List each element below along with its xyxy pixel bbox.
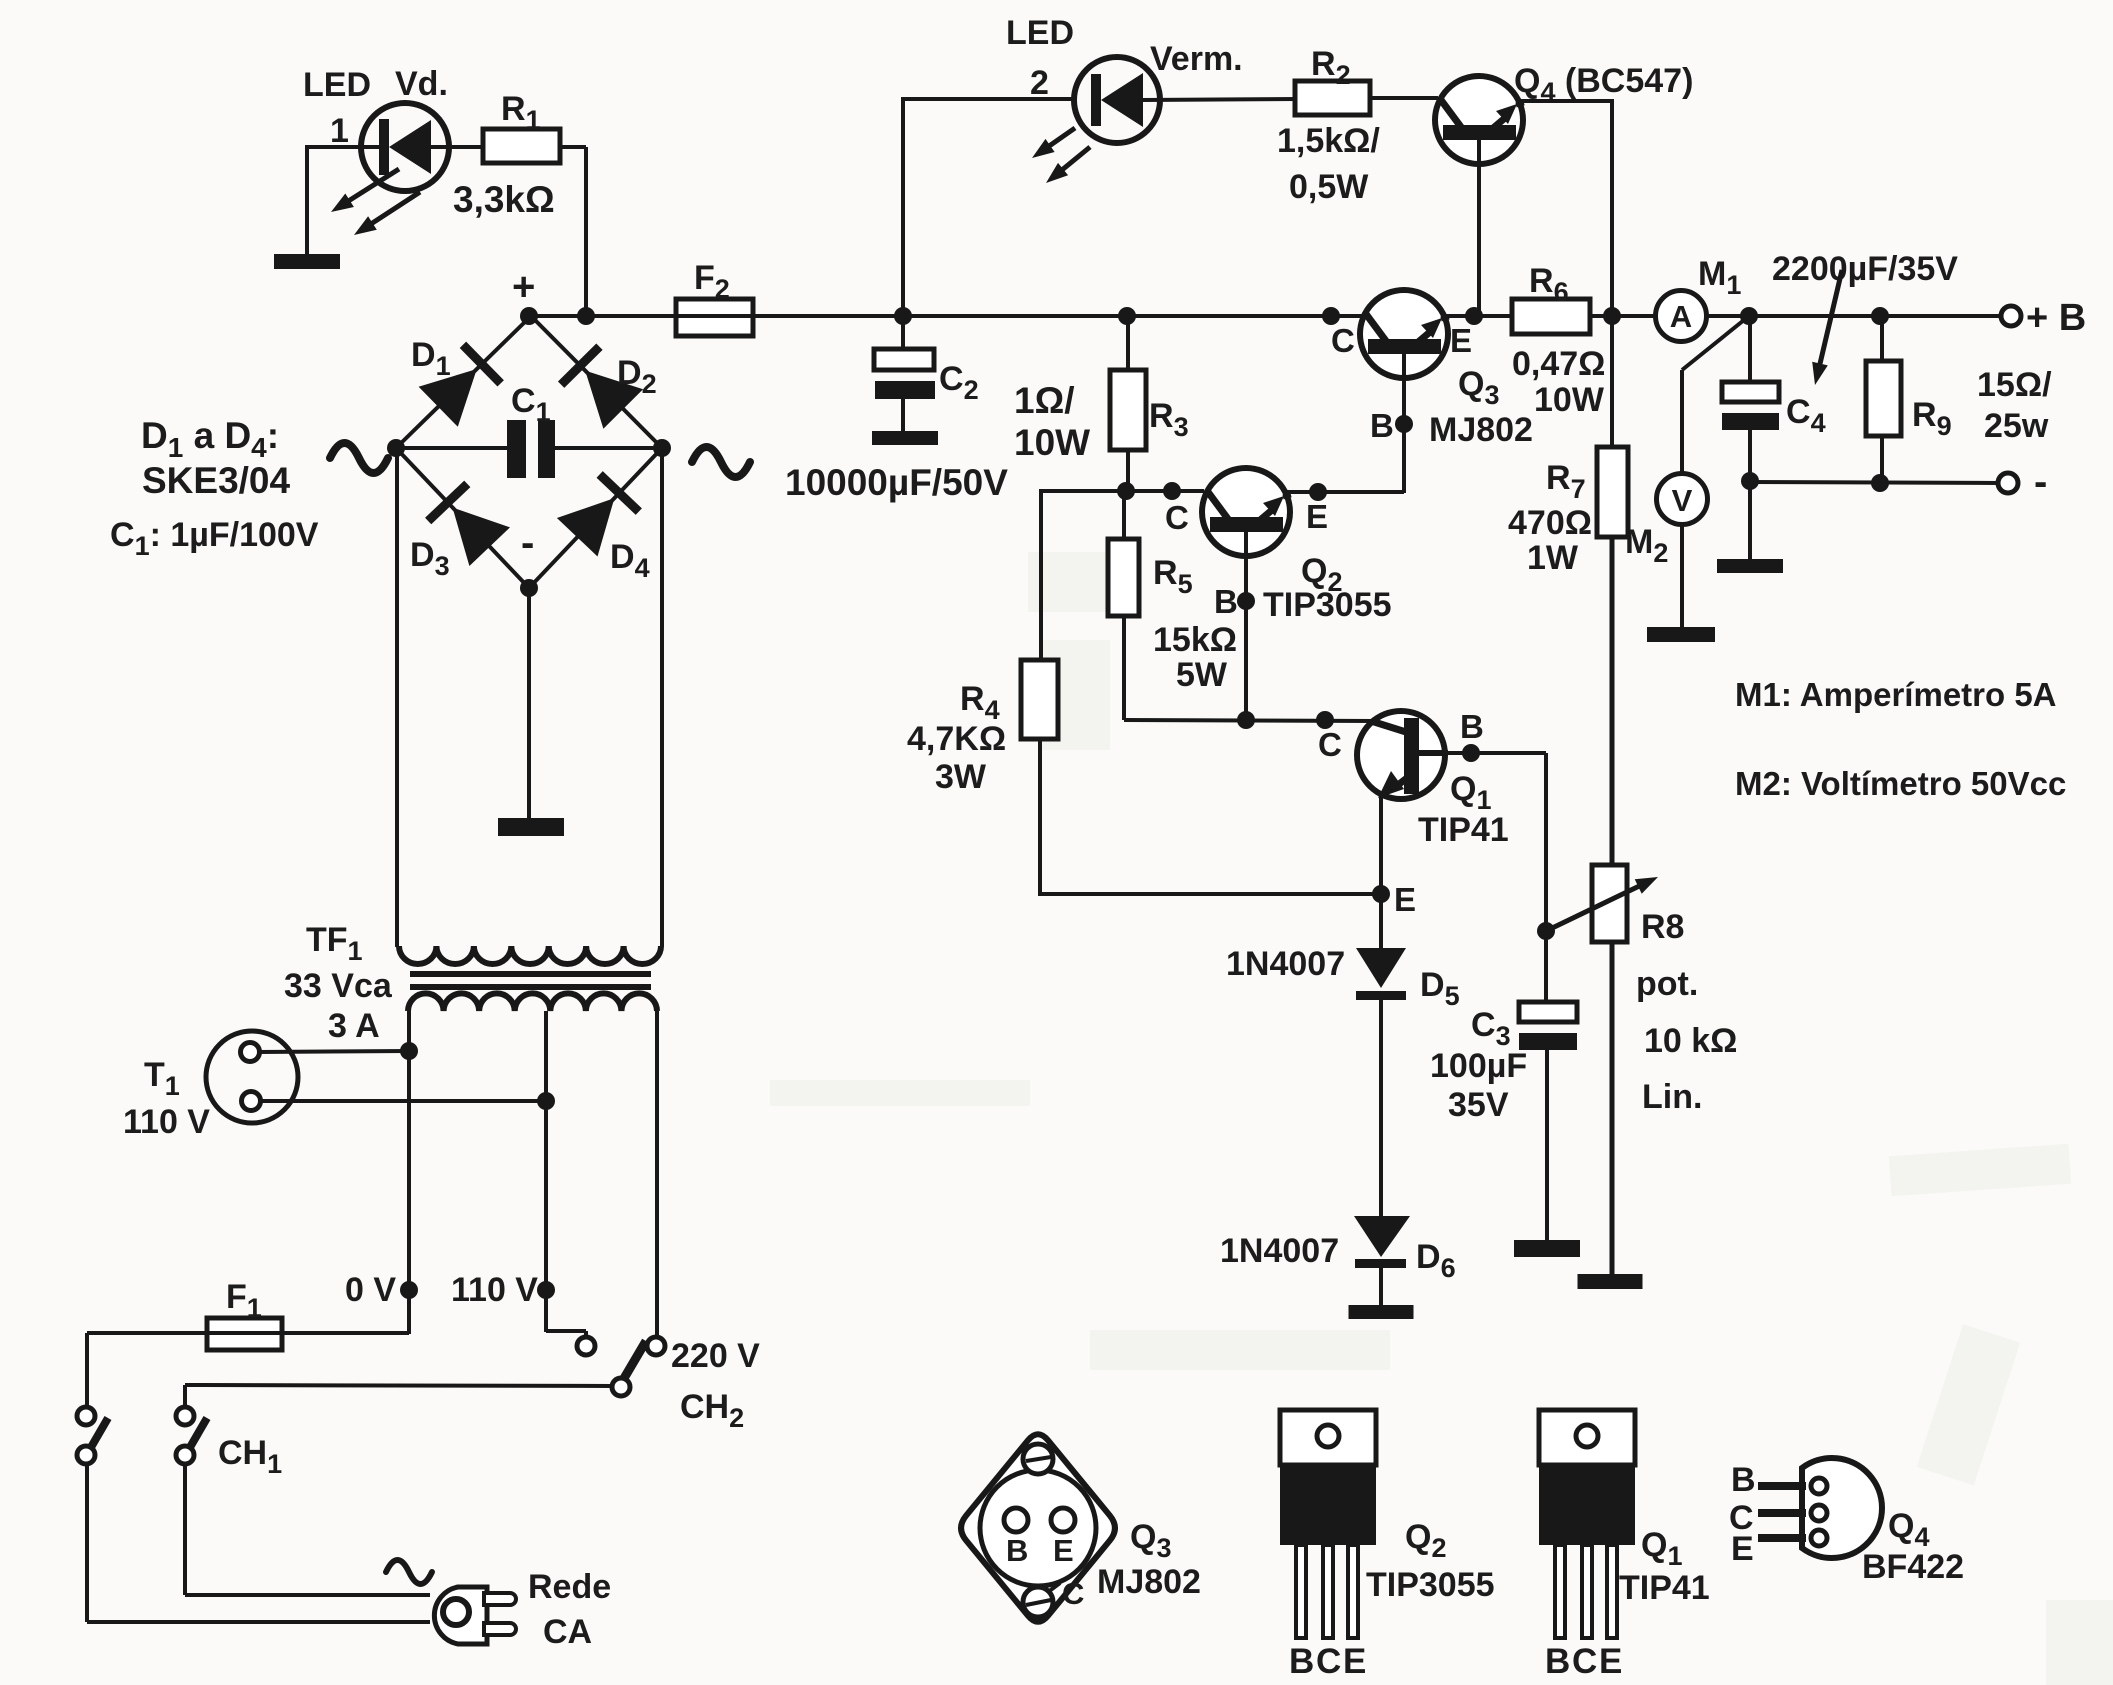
package Q1 TO-220 <box>1539 1410 1635 1465</box>
svg-text:35V: 35V <box>1448 1086 1509 1124</box>
svg-text:5W: 5W <box>1176 656 1228 694</box>
resistor R5 <box>1122 491 1126 541</box>
plug Rede CA <box>434 1587 487 1644</box>
svg-text:A: A <box>1670 299 1692 334</box>
svg-text:15kΩ: 15kΩ <box>1153 621 1237 659</box>
transformer core <box>410 971 651 977</box>
svg-text:1N4007: 1N4007 <box>1226 945 1345 983</box>
svg-text:15Ω/: 15Ω/ <box>1977 366 2052 404</box>
package Q2 TO-220 <box>1280 1410 1376 1465</box>
package Q4 pin wires <box>1758 1482 1806 1490</box>
wire base rail to Q1 <box>1124 720 1375 721</box>
wire R2 to Q4 <box>1370 96 1438 100</box>
svg-text:C: C <box>1331 322 1355 359</box>
svg-text:B: B <box>1214 583 1238 620</box>
node R9 top <box>1871 307 1889 325</box>
switch CH1 pole B <box>176 1407 194 1425</box>
svg-text:MJ802: MJ802 <box>1429 411 1533 449</box>
svg-text:TIP3055: TIP3055 <box>1263 586 1392 624</box>
svg-text:C: C <box>1316 1642 1341 1681</box>
terminal minus <box>1998 473 2018 493</box>
resistor R4 <box>1021 660 1058 739</box>
svg-text:3W: 3W <box>935 758 987 796</box>
svg-text:3,3kΩ: 3,3kΩ <box>453 179 555 220</box>
wire LED1 cathode to ground corner <box>307 145 382 149</box>
node 110V tap <box>537 1281 555 1299</box>
svg-text:4,7KΩ: 4,7KΩ <box>907 720 1006 758</box>
node bridge left <box>387 439 405 457</box>
wire bridge left leg <box>395 448 399 947</box>
svg-text:Verm.: Verm. <box>1150 40 1243 78</box>
label ~ right <box>692 447 750 477</box>
svg-text:2: 2 <box>1030 64 1049 102</box>
svg-text:110 V: 110 V <box>451 1271 538 1309</box>
resistor R9 <box>1880 316 1884 363</box>
svg-text:1: 1 <box>330 112 349 150</box>
svg-text:TIP3055: TIP3055 <box>1366 1566 1495 1604</box>
package Q3 screw bottom <box>1023 1587 1053 1617</box>
svg-text:1N4007: 1N4007 <box>1220 1232 1339 1270</box>
svg-text:25w: 25w <box>1984 407 2049 445</box>
switch CH2 pole <box>612 1378 630 1396</box>
diode D1 <box>419 369 477 427</box>
svg-text:SKE3/04: SKE3/04 <box>142 460 291 501</box>
wire T1 top pin <box>259 1051 409 1052</box>
svg-text:TIP41: TIP41 <box>1418 811 1509 849</box>
fuse F2 <box>676 299 753 336</box>
wire Q1 base to R8 wiper <box>1448 751 1546 755</box>
wire Q2 base <box>1244 530 1248 722</box>
svg-text:10W: 10W <box>1014 422 1090 463</box>
svg-text:E: E <box>1450 322 1472 359</box>
node Q2 base rail <box>1237 711 1255 729</box>
node bridge right <box>653 439 671 457</box>
svg-text:0,5W: 0,5W <box>1289 168 1369 206</box>
svg-text:0,47Ω: 0,47Ω <box>1512 345 1605 383</box>
callout arrow to C4 <box>1818 270 1842 372</box>
ground (D6) <box>1349 1305 1414 1319</box>
transistor Q1 TIP41 <box>1357 711 1448 799</box>
wire Q4 emitter to bus right <box>1521 99 1612 103</box>
svg-text:C: C <box>1062 1576 1084 1611</box>
capacitor C2 10000uF/50V <box>874 349 934 370</box>
node Q1 collector <box>1316 711 1334 729</box>
node R3 bus <box>1118 307 1136 325</box>
node Q3 base <box>1395 415 1413 433</box>
diode D6 1N4007 <box>1354 1216 1410 1257</box>
node Q3 emitter <box>1465 307 1483 325</box>
svg-text:E: E <box>1599 1642 1622 1681</box>
svg-text:E: E <box>1343 1642 1366 1681</box>
svg-text:Lin.: Lin. <box>1642 1078 1702 1116</box>
ground (C2) <box>872 431 938 445</box>
terminal +B <box>2001 306 2021 326</box>
meter M1 ammeter <box>1656 291 1707 342</box>
wire Q1 emitter <box>1379 795 1383 950</box>
svg-text:B: B <box>1460 708 1484 745</box>
node C4 bottom <box>1741 472 1759 490</box>
node Q3 collector <box>1322 307 1340 325</box>
wire primary right <box>655 1011 659 1338</box>
resistor R3 <box>1126 316 1130 372</box>
package Q3 screw top <box>1023 1444 1053 1474</box>
svg-text:Vd.: Vd. <box>395 65 448 103</box>
svg-text:1,5kΩ/: 1,5kΩ/ <box>1277 122 1380 160</box>
wire R3 bottom rail <box>1041 489 1204 493</box>
switch CH1 pole A <box>77 1407 95 1425</box>
svg-text:220 V: 220 V <box>671 1337 760 1375</box>
wire R7 to R8 <box>1610 537 1615 867</box>
capacitor C4 2200uF/35V <box>1722 382 1779 402</box>
LED2 light arrows <box>1043 128 1075 150</box>
ground (LED1) <box>274 254 340 269</box>
svg-text:B: B <box>1370 407 1394 444</box>
capacitor C3 100uF/35V <box>1519 1002 1577 1022</box>
node T1 bottom <box>537 1092 555 1110</box>
wire M2 to ground <box>1680 524 1684 629</box>
wire bridge right leg <box>660 448 664 947</box>
svg-text:1Ω/: 1Ω/ <box>1014 380 1075 421</box>
package Q3 TO-3 body <box>961 1434 1115 1622</box>
svg-text:100µF: 100µF <box>1430 1047 1527 1085</box>
diode D5 1N4007 <box>1356 948 1406 988</box>
diode D2 <box>585 371 643 429</box>
svg-text:33 Vca: 33 Vca <box>284 967 393 1005</box>
fuse F1 <box>207 1318 282 1350</box>
svg-text:B: B <box>1545 1642 1570 1681</box>
svg-text:B: B <box>1006 1533 1028 1568</box>
package Q3 pin B <box>1004 1508 1028 1532</box>
node bridge bottom <box>520 579 538 597</box>
svg-text:1W: 1W <box>1527 539 1579 577</box>
node Q2 collector <box>1163 482 1181 500</box>
svg-text:+ B: + B <box>2026 297 2086 339</box>
wire R1 to bus <box>560 145 586 149</box>
wire C4 to ground <box>1748 481 1752 561</box>
label ~ left <box>330 443 388 473</box>
svg-text:M1: Amperímetro 5A: M1: Amperímetro 5A <box>1735 676 2057 713</box>
node bridge plus <box>520 307 538 325</box>
svg-text:10W: 10W <box>1534 381 1605 419</box>
wire y491 to R4 <box>1039 489 1043 662</box>
node R3/R5 <box>1117 482 1135 500</box>
node 0V tap <box>400 1281 418 1299</box>
diode D4 <box>557 498 615 556</box>
wire F1 to primary <box>282 1331 409 1335</box>
diode D3 <box>453 508 511 567</box>
wire node to C4 <box>1748 316 1752 384</box>
wire T1 bottom pin <box>260 1099 546 1103</box>
wire primary mid tap <box>544 1011 548 1332</box>
node C2/LED2 bus <box>894 307 912 325</box>
package Q3 pin E <box>1051 1508 1075 1532</box>
wire bridge edges <box>396 316 531 448</box>
wire R8 to ground <box>1610 942 1615 1276</box>
svg-text:E: E <box>1053 1533 1074 1568</box>
node T1 top <box>400 1042 418 1060</box>
svg-text:TIP41: TIP41 <box>1619 1569 1710 1607</box>
svg-text:B: B <box>1289 1642 1314 1681</box>
wire CH2 to CH1 <box>185 1385 612 1386</box>
label ~ (mains) <box>386 1560 432 1584</box>
terminal 220V <box>647 1337 665 1355</box>
ground (R8) <box>1578 1274 1643 1289</box>
svg-text:3 A: 3 A <box>328 1007 380 1045</box>
LED LED2 (Verm.) <box>1074 57 1160 143</box>
LED LED1 (Vd.) <box>361 103 449 191</box>
svg-text:B: B <box>1731 1461 1756 1499</box>
resistor R1 <box>483 129 560 163</box>
node R1/bus <box>577 307 595 325</box>
svg-text:MJ802: MJ802 <box>1097 1563 1201 1601</box>
node R8 wiper <box>1537 922 1555 940</box>
plug T1 110V <box>206 1031 298 1123</box>
svg-text:0 V: 0 V <box>345 1271 396 1309</box>
package Q4 TO-92 body <box>1802 1458 1882 1558</box>
wire bridge bottom to ground <box>527 588 531 820</box>
meter M2 voltmeter <box>1657 474 1708 525</box>
node R6 right <box>1603 307 1621 325</box>
svg-text:E: E <box>1306 498 1328 535</box>
wire primary left <box>407 1011 411 1334</box>
transformer TF1 secondary <box>399 946 661 964</box>
svg-text:E: E <box>1731 1530 1754 1568</box>
package Q3 can <box>980 1470 1096 1586</box>
potentiometer R8 <box>1592 865 1627 942</box>
svg-text:-: - <box>521 521 534 565</box>
LED1 light arrows <box>342 169 399 205</box>
wire bus to C2 <box>901 316 905 351</box>
wire 0V rail <box>1750 482 1998 483</box>
wire R4 to emitter rail <box>1038 739 1042 896</box>
wire CH1 A down <box>85 1464 89 1622</box>
svg-text:C: C <box>1318 726 1342 763</box>
svg-text:M2: Voltímetro 50Vcc: M2: Voltímetro 50Vcc <box>1735 765 2066 802</box>
transformer TF1 primary <box>408 993 657 1011</box>
svg-text:110 V: 110 V <box>123 1103 210 1141</box>
node Q2 base <box>1237 592 1255 610</box>
wire main +V bus <box>529 314 1656 318</box>
switch CH2 lever <box>623 1341 646 1380</box>
svg-text:LED: LED <box>1006 14 1074 52</box>
svg-text:E: E <box>1394 881 1416 918</box>
capacitor C1 <box>396 446 509 450</box>
node Q1 base <box>1462 744 1480 762</box>
transistor Q4 (BC547) <box>1435 76 1524 164</box>
terminal 110V <box>577 1337 595 1355</box>
svg-text:10000µF/50V: 10000µF/50V <box>785 462 1008 503</box>
svg-text:C: C <box>1165 499 1189 536</box>
wire CH1 B down <box>183 1464 187 1595</box>
wire bus to R7 <box>1610 316 1614 449</box>
svg-text:BF422: BF422 <box>1862 1548 1964 1586</box>
svg-text:LED: LED <box>303 66 371 104</box>
wire F1 left down <box>87 1331 207 1335</box>
svg-text:-: - <box>2034 460 2047 504</box>
resistor R6 <box>1512 299 1590 334</box>
svg-text:2200µF/35V: 2200µF/35V <box>1772 250 1958 288</box>
resistor R2 <box>1295 81 1370 115</box>
svg-text:pot.: pot. <box>1636 965 1698 1003</box>
node Q1 emitter <box>1372 885 1390 903</box>
node Q2 emitter <box>1309 483 1327 501</box>
wire bus up to LED2 line <box>901 99 905 318</box>
ground (M2) <box>1647 627 1715 642</box>
package Q4 pin dots <box>1811 1478 1827 1494</box>
transistor Q2 TIP3055 <box>1202 468 1291 556</box>
svg-text:V: V <box>1672 483 1693 518</box>
svg-text:470Ω: 470Ω <box>1508 504 1592 542</box>
node R9 bottom <box>1871 474 1889 492</box>
wire Q3 base <box>1402 353 1406 493</box>
R8 wiper arrow <box>1546 883 1646 931</box>
ground (C4) <box>1717 559 1783 573</box>
wire M1 node to M2 <box>1682 316 1749 370</box>
node after M1 <box>1740 307 1758 325</box>
svg-text:C: C <box>1572 1642 1597 1681</box>
svg-text:Rede: Rede <box>528 1568 611 1606</box>
svg-text:CA: CA <box>543 1613 592 1651</box>
svg-text:+: + <box>512 265 535 309</box>
ground (C3) <box>1514 1240 1580 1257</box>
svg-text:10 kΩ: 10 kΩ <box>1644 1022 1737 1060</box>
svg-text:R8: R8 <box>1641 908 1684 946</box>
resistor R7 <box>1597 447 1628 537</box>
transistor Q3 MJ802 <box>1360 290 1449 378</box>
ground (bridge) <box>498 818 564 836</box>
wire Q4 base down to bus <box>1477 138 1481 316</box>
